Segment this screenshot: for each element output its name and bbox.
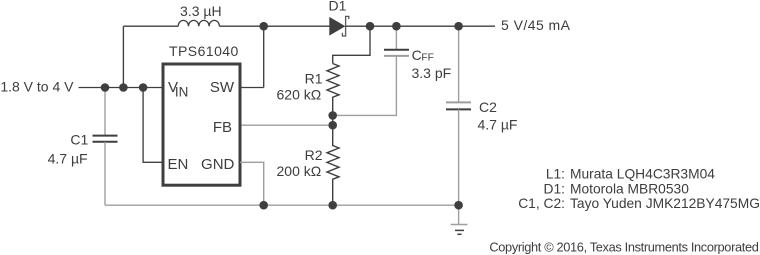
wire: ground rail [105, 204, 459, 206]
ground symbol bar 1 [451, 224, 468, 226]
wire: C1 bottom to ground rail [104, 142, 106, 205]
svg-text:5 V/45 mA: 5 V/45 mA [501, 17, 571, 33]
ground symbol bar 2 [455, 229, 464, 231]
svg-text:C1: C1 [70, 132, 88, 148]
svg-text:FB: FB [213, 119, 232, 136]
diode D1 schottky cathode bar [342, 16, 348, 36]
svg-text:Murata LQH4C3R3M04: Murata LQH4C3R3M04 [570, 166, 715, 181]
wire: CFF bottom to FB node [333, 56, 397, 116]
wire: inductor to diode anode [219, 25, 329, 27]
capacitor C1 top plate [93, 135, 118, 137]
resistor R1 [327, 64, 339, 116]
svg-text:4.7 µF: 4.7 µF [478, 116, 518, 132]
wire: SW vertical [263, 26, 265, 87]
capacitor C2 bottom plate [446, 108, 471, 110]
wire: SW horizontal into IC [240, 87, 264, 89]
capacitor CFF top plate [384, 49, 409, 51]
inductor L1 [178, 20, 219, 26]
node: FB dot [328, 121, 337, 130]
svg-text:Motorola MBR0530: Motorola MBR0530 [570, 181, 689, 196]
wire: R1 top branch [333, 26, 370, 63]
svg-text:1.8 V to 4 V: 1.8 V to 4 V [0, 79, 74, 95]
svg-text:3.3 pF: 3.3 pF [412, 65, 452, 81]
wire: C2 top stub [458, 26, 460, 102]
node: GND rail dot [259, 201, 268, 210]
svg-text:4.7 µF: 4.7 µF [48, 150, 88, 166]
node: input dot top branch [119, 83, 128, 92]
svg-text:Copyright © 2016, Texas Instru: Copyright © 2016, Texas Instruments Inco… [489, 240, 758, 255]
svg-text:GND: GND [201, 156, 235, 173]
wire: vertical from input up to inductor [122, 26, 124, 87]
svg-text:3.3 µH: 3.3 µH [180, 3, 222, 19]
svg-text:L1:: L1: [546, 166, 565, 181]
svg-text:D1: D1 [329, 0, 347, 14]
wire: diode cathode to output [345, 25, 495, 27]
svg-text:200 kΩ: 200 kΩ [277, 163, 322, 179]
capacitor CFF bottom plate [384, 55, 409, 57]
wire: EN branch [143, 88, 163, 163]
node: R1 bottom dot [328, 111, 337, 120]
ground symbol stub [458, 205, 460, 224]
ground symbol bar 3 [457, 233, 461, 235]
wire: GND pin to ground rail [240, 162, 264, 205]
capacitor C1 bottom plate [93, 141, 118, 143]
node: R1 tap dot [366, 22, 375, 31]
svg-text:TPS61040: TPS61040 [169, 43, 239, 59]
diode D1 triangle [329, 17, 345, 36]
node: input dot C1 branch [101, 83, 110, 92]
wire: C2 bottom to ground rail [458, 109, 460, 205]
resistor R2 [327, 125, 339, 205]
node: input dot EN branch [139, 83, 148, 92]
svg-text:SW: SW [210, 79, 235, 96]
svg-text:Tayo Yuden JMK212BY475MG: Tayo Yuden JMK212BY475MG [570, 196, 760, 211]
wire: FB to IC [240, 124, 333, 126]
svg-text:C1, C2:: C1, C2: [518, 196, 565, 211]
wire: C1 top stub [104, 88, 106, 136]
wire: input rail to VIN [79, 87, 164, 89]
node: SW junction dot [259, 22, 268, 31]
wire: top rail left segment [123, 25, 178, 27]
node: CFF tap dot [392, 22, 401, 31]
svg-text:620 kΩ: 620 kΩ [277, 87, 322, 103]
node: C2 tap dot [454, 22, 463, 31]
svg-text:R1: R1 [305, 70, 323, 86]
svg-text:R2: R2 [305, 147, 323, 163]
IC U1 TPS61040 box [163, 64, 240, 185]
wire: CFF top stub [395, 26, 397, 50]
svg-text:C2: C2 [479, 99, 497, 115]
node: R2 bottom dot [328, 201, 337, 210]
capacitor C2 top plate [446, 101, 471, 103]
svg-text:EN: EN [168, 156, 189, 173]
svg-text:D1:: D1: [544, 181, 565, 196]
wire: between FB dots [332, 115, 334, 125]
node: C2 ground dot [454, 201, 463, 210]
